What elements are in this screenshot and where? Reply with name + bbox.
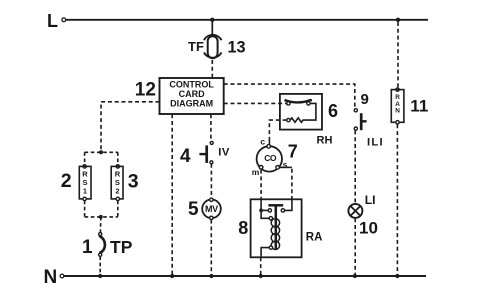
junction on N at TP	[98, 274, 102, 278]
wire c solid stub	[268, 138, 270, 145]
junction on N at RA	[259, 274, 263, 278]
svg-text:13: 13	[228, 39, 246, 57]
L rail terminal circle	[62, 18, 66, 22]
svg-text:CO: CO	[264, 153, 277, 163]
svg-text:ILI: ILI	[367, 136, 384, 148]
wire CO s right stub	[280, 166, 292, 168]
RA coil bottom wire	[261, 248, 269, 258]
label ILI	[367, 136, 384, 148]
label 12	[135, 80, 156, 101]
wire ILI to LI (dashed)	[354, 130, 356, 204]
resistor RAN 11	[391, 88, 404, 124]
junction node RS bottom	[99, 215, 103, 219]
svg-text:DIAGRAM: DIAGRAM	[170, 99, 213, 109]
wire L rail	[66, 19, 428, 21]
svg-text:12: 12	[135, 80, 156, 101]
wire LI to N (dashed)	[354, 218, 356, 274]
junction on L at TF	[210, 18, 214, 22]
label RA	[306, 231, 323, 243]
compressor motor CO	[257, 145, 282, 172]
svg-text:4: 4	[180, 146, 191, 167]
label 8	[238, 218, 248, 238]
svg-text:IV: IV	[218, 146, 230, 158]
wire TP to N (dashed)	[99, 256, 101, 274]
junction on L at RAN branch	[396, 18, 400, 22]
svg-text:CARD: CARD	[179, 89, 205, 99]
wire RS splitter top (dashed)	[85, 152, 118, 164]
label IV	[218, 146, 230, 158]
junction on N at card branch	[170, 274, 174, 278]
node N label	[44, 267, 58, 288]
label RH	[317, 135, 333, 147]
junction on N at MV	[209, 274, 213, 278]
wire CO m to RA (dashed)	[260, 170, 262, 199]
svg-text:TP: TP	[110, 237, 133, 257]
wire RA to N (dashed)	[260, 257, 262, 274]
wire RS bottom to TP (dashed)	[99, 217, 101, 232]
svg-text:1: 1	[82, 237, 93, 258]
relay RA box	[251, 199, 302, 257]
svg-text:TF: TF	[188, 39, 204, 54]
fuse TF bottom arc	[204, 52, 222, 57]
RA inner wiring	[259, 199, 292, 218]
wire IV to MV (dashed)	[210, 164, 212, 198]
relay RH box	[280, 94, 322, 130]
node L label	[47, 11, 58, 31]
N rail terminal circle	[60, 274, 64, 278]
label 7	[288, 141, 298, 161]
control card text	[169, 80, 214, 109]
label 1	[82, 237, 93, 258]
fuse TF top arc	[204, 35, 222, 40]
junction on N at LI	[353, 274, 357, 278]
svg-text:MV: MV	[205, 204, 218, 214]
label 9	[361, 91, 369, 108]
fuse TF 13 body	[208, 36, 218, 58]
thermal protector TP	[99, 233, 105, 257]
label 10	[359, 219, 378, 238]
switch IV	[199, 141, 213, 163]
junction node RS top	[99, 150, 103, 154]
control card U12 box	[160, 78, 224, 114]
lamp LI	[348, 204, 362, 218]
RH switch contacts	[284, 99, 312, 105]
label c	[260, 137, 265, 147]
svg-text:5: 5	[188, 199, 199, 220]
svg-text:11: 11	[410, 96, 428, 115]
junction on N at RAN	[395, 274, 399, 278]
svg-text:2: 2	[115, 187, 119, 196]
svg-text:3: 3	[128, 171, 139, 193]
svg-text:2: 2	[61, 170, 72, 192]
label s	[283, 159, 288, 169]
label 5	[188, 199, 199, 220]
RA coil	[269, 217, 279, 250]
label LI	[365, 193, 376, 207]
label 11	[410, 96, 428, 115]
wire RAN to N (dashed)	[396, 124, 398, 274]
label 4	[180, 146, 191, 167]
label TF	[188, 39, 204, 54]
wire L to fuse TF	[211, 20, 213, 34]
wire card left output to RS branch (dashed)	[101, 102, 160, 153]
svg-text:10: 10	[359, 219, 378, 238]
wire MV to N (dashed)	[210, 220, 212, 275]
switch ILI	[354, 109, 366, 131]
label 3	[128, 171, 139, 193]
motor MV	[202, 198, 221, 219]
RH heater resistor	[287, 103, 316, 122]
wire card right to ILI (dashed)	[224, 84, 355, 108]
wire card bottom-right to IV (dashed)	[210, 114, 212, 141]
wire L to RAN (dashed)	[397, 22, 399, 88]
svg-text:7: 7	[288, 141, 298, 161]
label 2	[61, 170, 72, 192]
svg-text:L: L	[47, 11, 58, 31]
svg-text:c: c	[260, 137, 265, 147]
svg-text:9: 9	[361, 91, 369, 108]
wire card bottom-left to N (dashed)	[171, 114, 173, 274]
svg-text:m: m	[252, 167, 260, 177]
svg-text:RH: RH	[317, 135, 333, 147]
wire card right to RH (dashed)	[224, 102, 287, 104]
label m	[252, 167, 260, 177]
wire RS splitter bottom (dashed)	[85, 201, 118, 217]
label 13	[228, 39, 246, 57]
svg-text:6: 6	[328, 101, 338, 121]
svg-text:1: 1	[83, 187, 87, 196]
svg-text:N: N	[395, 107, 400, 114]
RA armature	[268, 205, 283, 249]
resistor RS2	[111, 165, 123, 201]
label TP	[110, 237, 133, 257]
wire fuse to control card (dashed)	[211, 60, 213, 78]
svg-text:8: 8	[238, 218, 248, 238]
wire N rail	[64, 275, 426, 277]
wire CO s to RA (dashed)	[291, 169, 293, 199]
svg-text:N: N	[44, 267, 58, 288]
resistor RS1	[79, 165, 91, 201]
svg-text:LI: LI	[365, 193, 376, 207]
wire RH to compressor c terminal (dashed)	[269, 120, 286, 137]
label 6	[328, 101, 338, 121]
svg-text:RA: RA	[306, 231, 323, 243]
